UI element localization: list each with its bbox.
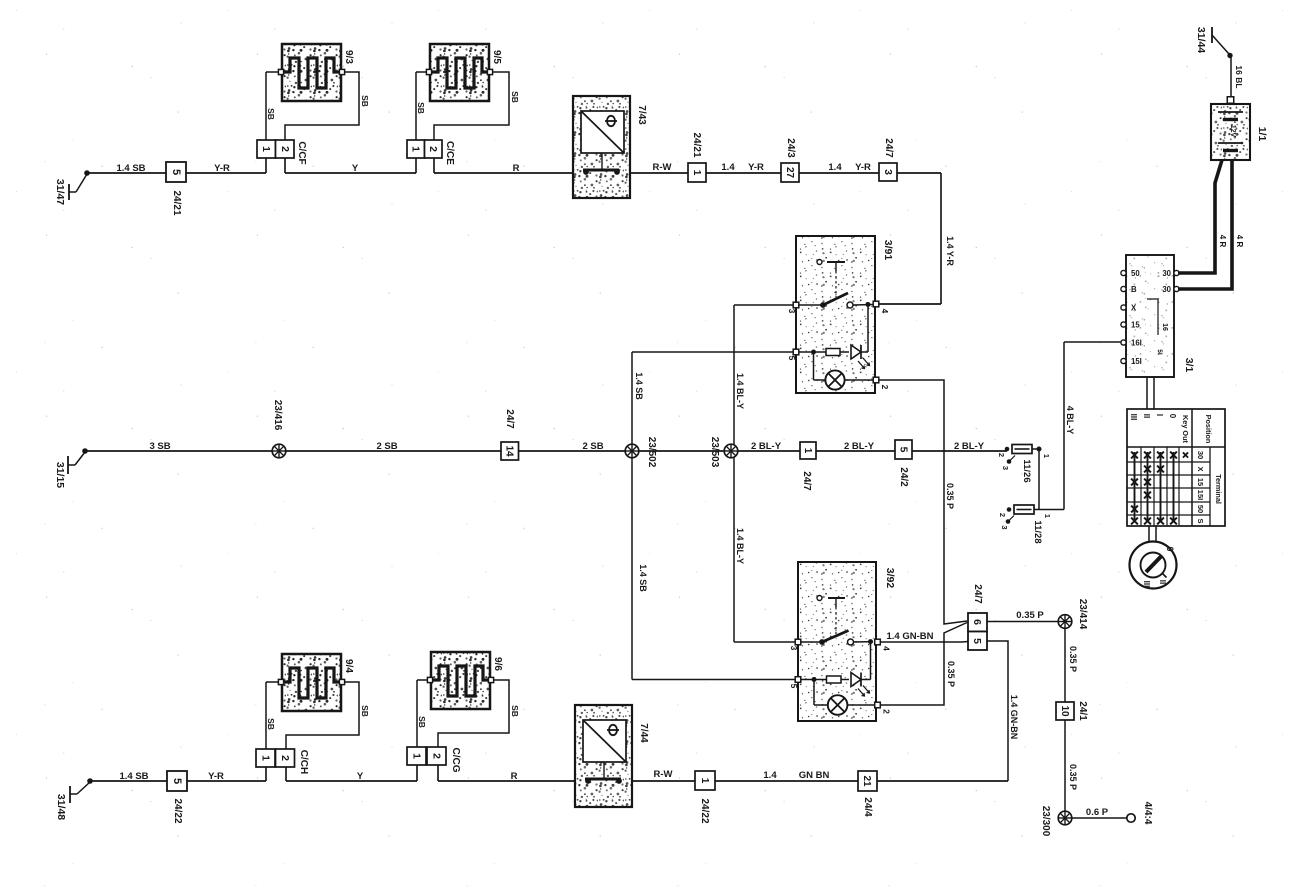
svg-text:23/300: 23/300 bbox=[1040, 806, 1051, 837]
svg-text:23/416: 23/416 bbox=[272, 400, 283, 431]
svg-text:3/91: 3/91 bbox=[882, 240, 894, 261]
svg-text:5: 5 bbox=[171, 778, 183, 784]
svg-text:5: 5 bbox=[787, 356, 797, 361]
svg-text:Y-R: Y-R bbox=[855, 162, 871, 173]
svg-text:1.4: 1.4 bbox=[828, 162, 842, 173]
svg-text:1: 1 bbox=[691, 170, 703, 176]
svg-text:16: 16 bbox=[1161, 323, 1168, 331]
svg-text:2: 2 bbox=[882, 709, 892, 714]
svg-text:X: X bbox=[1131, 304, 1137, 313]
svg-text:2: 2 bbox=[279, 755, 291, 761]
svg-text:1.4 SB: 1.4 SB bbox=[119, 771, 148, 782]
svg-text:24/7: 24/7 bbox=[801, 471, 812, 491]
svg-text:C/CE: C/CE bbox=[444, 141, 455, 165]
svg-text:3: 3 bbox=[882, 169, 894, 175]
svg-text:24/22: 24/22 bbox=[172, 798, 183, 823]
svg-text:Position: Position bbox=[1204, 415, 1213, 444]
svg-text:2 BL-Y: 2 BL-Y bbox=[954, 441, 985, 452]
svg-text:SB: SB bbox=[510, 91, 520, 103]
svg-text:16 BL: 16 BL bbox=[1234, 65, 1244, 88]
svg-text:C/CG: C/CG bbox=[450, 748, 461, 773]
svg-text:31/44: 31/44 bbox=[1195, 27, 1207, 53]
svg-text:1/1: 1/1 bbox=[1256, 127, 1268, 142]
svg-text:24/1: 24/1 bbox=[1077, 701, 1088, 721]
svg-text:15I: 15I bbox=[1131, 357, 1142, 366]
svg-text:30: 30 bbox=[1196, 451, 1205, 459]
svg-text:R: R bbox=[511, 771, 518, 782]
svg-text:1: 1 bbox=[260, 755, 272, 761]
svg-text:9/5: 9/5 bbox=[491, 50, 502, 64]
svg-text:1: 1 bbox=[260, 146, 272, 152]
svg-text:1.4 SB: 1.4 SB bbox=[116, 163, 145, 174]
svg-text:2: 2 bbox=[997, 453, 1006, 457]
svg-text:30: 30 bbox=[1162, 269, 1171, 278]
svg-text:2 BL-Y: 2 BL-Y bbox=[751, 441, 782, 452]
svg-text:24/21: 24/21 bbox=[171, 190, 182, 215]
svg-text:S: S bbox=[1196, 518, 1205, 523]
svg-text:III: III bbox=[1142, 581, 1151, 588]
svg-text:5: 5 bbox=[789, 684, 799, 689]
svg-text:15: 15 bbox=[1196, 478, 1205, 486]
svg-text:3/92: 3/92 bbox=[884, 568, 896, 589]
svg-text:5: 5 bbox=[971, 638, 983, 644]
svg-text:1: 1 bbox=[410, 146, 422, 152]
svg-text:24/21: 24/21 bbox=[691, 132, 702, 157]
svg-text:23/502: 23/502 bbox=[646, 437, 657, 468]
svg-text:15I: 15I bbox=[1196, 490, 1205, 500]
svg-text:4: 4 bbox=[882, 646, 892, 651]
svg-text:14: 14 bbox=[504, 445, 515, 457]
svg-text:0.35 P: 0.35 P bbox=[946, 661, 956, 687]
svg-text:21: 21 bbox=[861, 775, 872, 787]
svg-text:SB: SB bbox=[266, 718, 276, 730]
svg-text:1: 1 bbox=[699, 778, 711, 784]
svg-text:2: 2 bbox=[431, 753, 443, 759]
svg-text:23/414: 23/414 bbox=[1077, 599, 1088, 630]
svg-text:50: 50 bbox=[1196, 505, 1205, 513]
svg-text:1.4 GN-BN: 1.4 GN-BN bbox=[887, 631, 934, 642]
svg-text:12V: 12V bbox=[1229, 125, 1236, 138]
svg-text:11/28: 11/28 bbox=[1032, 520, 1043, 543]
svg-text:4 R: 4 R bbox=[1218, 235, 1227, 248]
svg-text:3/1: 3/1 bbox=[1183, 358, 1195, 373]
svg-text:R: R bbox=[513, 163, 520, 174]
svg-text:B: B bbox=[1131, 285, 1137, 294]
svg-text:1.4 SB: 1.4 SB bbox=[634, 372, 644, 400]
svg-text:7/44: 7/44 bbox=[638, 723, 649, 743]
svg-text:SB: SB bbox=[510, 705, 520, 717]
svg-text:SB: SB bbox=[266, 108, 276, 120]
svg-text:4: 4 bbox=[880, 309, 890, 314]
svg-text:SB: SB bbox=[360, 705, 370, 717]
svg-text:0.35 P: 0.35 P bbox=[1016, 610, 1044, 621]
svg-text:7/43: 7/43 bbox=[636, 105, 647, 125]
svg-text:30: 30 bbox=[1162, 285, 1171, 294]
svg-text:0: 0 bbox=[1165, 546, 1175, 551]
svg-text:24/4: 24/4 bbox=[862, 797, 873, 817]
svg-text:31/48: 31/48 bbox=[55, 794, 67, 820]
svg-text:Terminal: Terminal bbox=[1214, 474, 1223, 504]
svg-text:0.35 P: 0.35 P bbox=[1068, 646, 1078, 672]
svg-text:2 BL-Y: 2 BL-Y bbox=[844, 441, 875, 452]
svg-text:C/CH: C/CH bbox=[298, 750, 309, 774]
svg-text:Y: Y bbox=[352, 163, 359, 174]
svg-text:2: 2 bbox=[880, 385, 890, 390]
svg-text:II: II bbox=[1158, 580, 1167, 584]
svg-text:I: I bbox=[1155, 414, 1164, 416]
svg-text:0: 0 bbox=[1168, 414, 1177, 419]
svg-text:0.35 P: 0.35 P bbox=[1068, 764, 1078, 790]
svg-text:X: X bbox=[1196, 466, 1205, 471]
svg-text:15: 15 bbox=[1131, 321, 1140, 330]
svg-text:3: 3 bbox=[1000, 525, 1009, 529]
svg-text:3 SB: 3 SB bbox=[149, 441, 170, 452]
svg-text:II: II bbox=[1142, 414, 1151, 418]
svg-text:R-W: R-W bbox=[653, 162, 672, 173]
svg-text:2: 2 bbox=[279, 146, 291, 152]
svg-text:1.4 Y-R: 1.4 Y-R bbox=[945, 236, 955, 266]
svg-text:1.4: 1.4 bbox=[721, 162, 735, 173]
svg-text:9/6: 9/6 bbox=[492, 657, 503, 671]
svg-text:24/3: 24/3 bbox=[785, 138, 796, 158]
svg-text:1.4 BL-Y: 1.4 BL-Y bbox=[735, 528, 745, 564]
svg-text:R-W: R-W bbox=[654, 769, 673, 780]
svg-text:5I: 5I bbox=[1156, 349, 1163, 355]
svg-text:5: 5 bbox=[170, 169, 182, 175]
svg-text:2 SB: 2 SB bbox=[376, 441, 397, 452]
svg-text:16I: 16I bbox=[1131, 339, 1142, 348]
svg-text:III: III bbox=[1129, 414, 1138, 421]
svg-text:3: 3 bbox=[787, 309, 797, 314]
svg-text:10: 10 bbox=[1059, 705, 1070, 717]
svg-text:24/22: 24/22 bbox=[699, 798, 710, 823]
svg-text:4 R: 4 R bbox=[1235, 235, 1244, 248]
svg-text:23/503: 23/503 bbox=[709, 437, 720, 468]
svg-text:4/4:4: 4/4:4 bbox=[1142, 802, 1153, 825]
svg-text:2: 2 bbox=[998, 513, 1007, 517]
svg-text:31/47: 31/47 bbox=[54, 179, 66, 205]
svg-text:27: 27 bbox=[784, 167, 795, 179]
svg-text:24/7: 24/7 bbox=[972, 584, 983, 604]
svg-text:C/CF: C/CF bbox=[296, 141, 307, 164]
svg-text:3: 3 bbox=[789, 646, 799, 651]
svg-text:3: 3 bbox=[1001, 466, 1010, 470]
svg-text:9/3: 9/3 bbox=[343, 50, 354, 64]
svg-text:Y-R: Y-R bbox=[748, 162, 764, 173]
svg-text:50: 50 bbox=[1131, 269, 1140, 278]
svg-text:6: 6 bbox=[971, 619, 983, 625]
svg-text:SB: SB bbox=[417, 716, 427, 728]
svg-text:SB: SB bbox=[416, 102, 426, 114]
svg-text:1.4: 1.4 bbox=[763, 770, 777, 781]
svg-text:4 BL-Y: 4 BL-Y bbox=[1065, 406, 1075, 435]
svg-text:9/4: 9/4 bbox=[343, 659, 354, 673]
svg-text:24/7: 24/7 bbox=[883, 138, 894, 158]
svg-text:24/2: 24/2 bbox=[898, 467, 909, 487]
svg-text:Y-R: Y-R bbox=[208, 771, 224, 782]
svg-text:0.6 P: 0.6 P bbox=[1086, 807, 1109, 818]
svg-text:31/15: 31/15 bbox=[54, 462, 66, 488]
svg-text:1.4 BL-Y: 1.4 BL-Y bbox=[735, 373, 745, 409]
svg-text:Y: Y bbox=[357, 771, 364, 782]
svg-text:1: 1 bbox=[1043, 514, 1052, 518]
svg-text:1: 1 bbox=[1042, 454, 1051, 458]
svg-text:1.4 SB: 1.4 SB bbox=[638, 564, 648, 592]
svg-text:0.35 P: 0.35 P bbox=[945, 483, 955, 509]
svg-text:1.4 GN-BN: 1.4 GN-BN bbox=[1009, 695, 1019, 740]
svg-text:2 SB: 2 SB bbox=[582, 441, 603, 452]
svg-text:Key Out: Key Out bbox=[1181, 415, 1190, 444]
svg-text:11/26: 11/26 bbox=[1021, 459, 1032, 482]
svg-text:SB: SB bbox=[360, 95, 370, 107]
svg-text:1: 1 bbox=[411, 753, 423, 759]
svg-text:2: 2 bbox=[427, 146, 439, 152]
svg-text:GN BN: GN BN bbox=[799, 770, 830, 781]
svg-text:1: 1 bbox=[802, 448, 813, 454]
svg-text:5: 5 bbox=[898, 447, 910, 453]
svg-text:Y-R: Y-R bbox=[214, 163, 230, 174]
svg-text:24/7: 24/7 bbox=[504, 409, 515, 429]
